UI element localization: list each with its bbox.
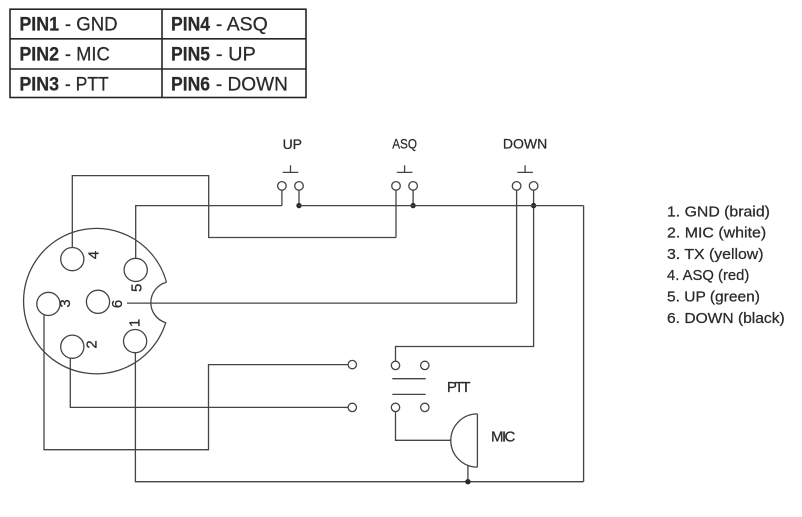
junction dot ASQ right contact to bus: [410, 203, 415, 208]
svg-text:6: 6: [109, 300, 126, 308]
connector J1 outline with keyway notch: [24, 228, 167, 373]
switch DOWN right contact: [529, 182, 538, 191]
svg-text:5: 5: [129, 284, 146, 292]
PTT upper open terminal: [348, 360, 356, 368]
svg-text:MIC: MIC: [491, 428, 516, 445]
PTT switch bottom-left contact: [391, 403, 399, 411]
svg-text:PIN3- PTT: PIN3- PTT: [19, 75, 109, 96]
pin 4: [61, 248, 84, 271]
wire pin 1 to ground bus bottom: [135, 353, 583, 482]
switch ASQ actuator: [397, 165, 413, 172]
svg-text:PIN4- ASQ: PIN4- ASQ: [171, 15, 268, 36]
pinout table frame: [10, 9, 306, 97]
pin 1: [124, 330, 147, 353]
svg-text:3. TX (yellow): 3. TX (yellow): [667, 246, 764, 263]
switch UP actuator: [283, 165, 299, 172]
junction dot DOWN right contact on bus: [531, 203, 536, 208]
pin 5: [124, 258, 147, 281]
wire DOWN right contact down through bus to PTT: [396, 190, 534, 361]
wire MIC to ground bus: [467, 465, 469, 482]
junction dot MIC on ground bus: [465, 479, 470, 484]
svg-text:1. GND (braid): 1. GND (braid): [667, 203, 770, 220]
svg-text:6. DOWN (black): 6. DOWN (black): [667, 310, 785, 327]
PTT switch top-left contact: [391, 361, 399, 369]
switch UP left contact: [278, 182, 287, 191]
microphone element MIC: [451, 414, 478, 467]
wire UP left contact stub: [281, 190, 283, 205]
wire common bus top: [299, 205, 584, 207]
wire ASQ left contact down to pin4 feed: [395, 190, 397, 237]
pin 2: [61, 335, 84, 358]
svg-text:DOWN: DOWN: [503, 136, 547, 152]
PTT lower open terminal: [348, 403, 356, 411]
svg-text:4: 4: [85, 251, 102, 259]
wire pin 4 to ASQ left contact: [72, 176, 396, 248]
switch DOWN actuator: [517, 165, 533, 172]
wire ASQ right contact stub: [412, 190, 414, 205]
wire PTT bottom-left contact to MIC: [396, 412, 451, 441]
svg-text:PIN6- DOWN: PIN6- DOWN: [171, 75, 288, 96]
svg-text:1: 1: [126, 319, 143, 327]
switch ASQ left contact: [392, 182, 401, 191]
switch ASQ right contact: [409, 182, 418, 191]
svg-text:3: 3: [57, 299, 74, 307]
junction dot UP right contact to bus: [296, 203, 301, 208]
svg-text:PIN2- MIC: PIN2- MIC: [19, 44, 109, 65]
svg-text:4. ASQ (red): 4. ASQ (red): [667, 267, 749, 284]
svg-text:2: 2: [83, 340, 100, 348]
svg-text:ASQ: ASQ: [392, 136, 417, 152]
pin 6: [86, 290, 109, 313]
svg-text:5. UP (green): 5. UP (green): [667, 289, 760, 306]
pin 3: [37, 292, 60, 315]
svg-text:2. MIC (white): 2. MIC (white): [667, 225, 766, 242]
PTT switch bars: [392, 379, 425, 395]
PTT switch top-right contact: [421, 361, 429, 369]
switch DOWN left contact: [512, 182, 521, 191]
wire pin 6 to DOWN left contact: [127, 302, 517, 304]
wire DOWN left contact down to pin6 line: [516, 190, 518, 303]
PTT switch bottom-right contact: [421, 403, 429, 411]
wire pin 3 to PTT upper terminal: [44, 315, 348, 450]
switch UP right contact: [295, 182, 304, 191]
wire pin 5 to UP left contact: [136, 206, 282, 259]
svg-text:PIN1- GND: PIN1- GND: [19, 15, 117, 36]
wire UP right contact stub: [298, 190, 300, 205]
svg-text:UP: UP: [283, 136, 302, 152]
svg-text:PTT: PTT: [447, 379, 471, 396]
wire common bus right side down: [583, 206, 585, 482]
wire pin 2 to PTT lower terminal: [70, 358, 348, 407]
